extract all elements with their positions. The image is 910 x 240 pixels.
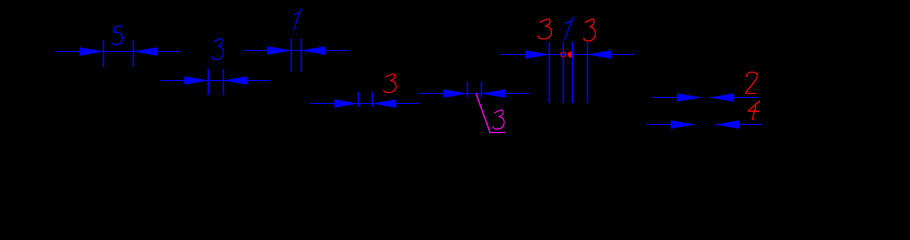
label 4 (red) for line G	[748, 101, 760, 119]
symbol S1 arrow left	[133, 47, 158, 56]
line F arrow left	[710, 93, 735, 102]
symbol S2 arrow right	[184, 76, 209, 85]
symbol S4 arrow right	[334, 99, 359, 108]
wire line G right segment	[715, 124, 762, 126]
symbol S1 tick 2	[132, 40, 134, 67]
wire line F right segment	[710, 97, 758, 99]
wire line E	[419, 93, 530, 95]
wire line G left segment	[647, 124, 695, 126]
center group tick 2	[562, 42, 564, 103]
center group tick 1	[548, 42, 550, 103]
line G arrow left	[715, 120, 740, 129]
label 1 (blue) for S3	[294, 9, 302, 30]
center group arrow left	[587, 50, 612, 59]
center group tick 4	[587, 42, 589, 103]
symbol S5 tick 2	[480, 82, 482, 97]
label 1 (blue) center	[565, 17, 575, 40]
wire line B	[244, 50, 349, 52]
label 2 (red) for line F	[746, 72, 758, 93]
symbol S2 tick 1	[207, 69, 209, 95]
line F arrow right	[677, 93, 702, 102]
symbol S3 tick 2	[300, 39, 302, 72]
wire line D	[310, 103, 420, 105]
symbol S2 tick 2	[222, 69, 224, 95]
symbol S1 arrow right	[80, 47, 105, 56]
label 3 (blue) for S2	[212, 39, 223, 60]
wire line A	[56, 51, 181, 53]
wire center line	[501, 54, 636, 56]
symbol S2 arrow left	[223, 76, 248, 85]
symbol S1 tick 1	[103, 40, 105, 67]
center line re-draw over ring	[558, 54, 568, 56]
center group arrow right	[525, 50, 550, 59]
label 3 (red) center-left	[538, 19, 551, 39]
leader underline (magenta)	[489, 131, 505, 133]
label 3 (red) for S4	[384, 74, 396, 93]
wire line C	[161, 80, 271, 82]
symbol S4 tick 1	[357, 92, 359, 107]
label 5 (blue) for S1	[112, 26, 123, 45]
symbol S4 arrow left	[372, 99, 397, 108]
node dot (filled red) left of center tick 3	[568, 52, 574, 58]
symbol S5 arrow left	[481, 89, 506, 98]
center group tick 3	[571, 42, 573, 103]
node ring (hollow red circle) on center tick 2	[561, 52, 566, 57]
symbol S5 tick 1	[466, 82, 468, 97]
symbol S3 tick 1	[290, 39, 292, 72]
line G arrow right	[671, 120, 696, 129]
symbol S4 tick 2	[371, 92, 373, 107]
symbol S3 arrow right	[267, 46, 292, 55]
symbol S5 arrow right	[443, 89, 468, 98]
label 3 (red) center-right	[584, 19, 596, 41]
symbol S3 arrow left	[301, 46, 326, 55]
leader line (magenta) for symbol S5	[476, 94, 490, 132]
label 3 (magenta) on leader	[493, 110, 504, 129]
wire line F left segment	[653, 97, 701, 99]
